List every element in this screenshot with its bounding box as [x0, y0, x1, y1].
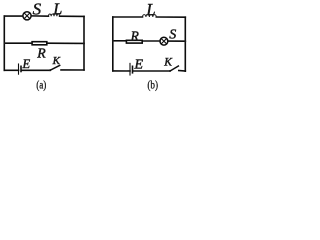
svg-text:R: R — [130, 28, 140, 43]
svg-text:L: L — [145, 0, 155, 19]
svg-text:S: S — [33, 0, 42, 19]
svg-text:(b): (b) — [147, 79, 158, 91]
svg-text:E: E — [134, 57, 144, 72]
svg-text:K: K — [163, 56, 173, 68]
svg-text:K: K — [52, 55, 61, 67]
svg-text:R: R — [36, 45, 46, 60]
svg-text:(a): (a) — [36, 79, 46, 91]
svg-text:S: S — [169, 28, 176, 43]
svg-text:E: E — [22, 57, 31, 71]
